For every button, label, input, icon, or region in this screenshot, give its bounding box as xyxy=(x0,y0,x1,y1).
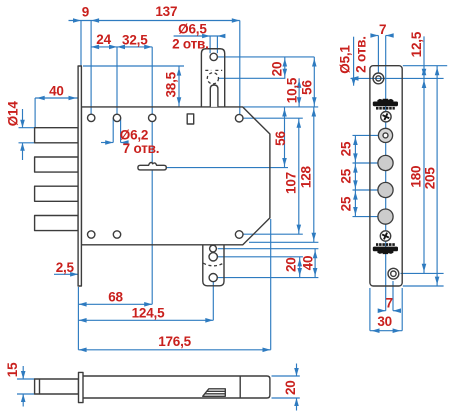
wire ext top chamfer hole right xyxy=(244,117,303,119)
wire ext side body top right xyxy=(272,375,300,377)
wire centerline right view xyxy=(385,36,387,311)
svg-text:20: 20 xyxy=(283,380,298,395)
wire ext hole column 1 xyxy=(90,21,92,118)
side view spring line 2 xyxy=(205,393,226,395)
svg-text:205: 205 xyxy=(422,167,437,190)
bottom tab xyxy=(203,245,224,286)
wire ext hole column 2 xyxy=(116,47,118,118)
hole bottom chamfer xyxy=(235,231,243,239)
svg-text:7: 7 xyxy=(386,296,393,311)
top screw hole outer xyxy=(373,73,384,84)
svg-text:40: 40 xyxy=(300,256,315,271)
strike strip outline xyxy=(370,66,402,286)
wire dim line 124,5 xyxy=(78,319,213,321)
svg-text:20: 20 xyxy=(270,62,285,77)
svg-text:56: 56 xyxy=(300,80,315,95)
wire leader 2,5 xyxy=(54,273,78,275)
wire dim 20 side lower xyxy=(296,398,298,411)
wire tick bolt bottom xyxy=(19,142,36,144)
wire dim 56 vertical top xyxy=(313,57,315,107)
side view spring detail xyxy=(203,389,226,397)
bottom tab dashed circle xyxy=(209,253,217,261)
svg-text:56: 56 xyxy=(273,131,288,146)
svg-text:24: 24 xyxy=(96,32,111,47)
wire ext dashed circle center right xyxy=(219,77,286,79)
keyway slot xyxy=(138,163,166,170)
svg-text:30: 30 xyxy=(377,314,392,329)
hole row2 c2 xyxy=(113,231,120,238)
gray circle 2 xyxy=(378,182,393,197)
wire dim line 40 bolt xyxy=(35,97,78,99)
hole row1 c1 xyxy=(88,114,95,121)
top tab xyxy=(201,49,224,107)
wire dim 40 vertical bottom right xyxy=(314,249,316,278)
svg-text:68: 68 xyxy=(108,290,123,305)
faceplate edge view xyxy=(78,66,81,286)
wire ext top screw hole horizontal xyxy=(351,77,444,79)
wire dim 15 upper xyxy=(22,366,24,379)
svg-text:15: 15 xyxy=(5,362,20,377)
wire dim line 24/32,5 xyxy=(91,46,152,48)
wire dim 12,5/180 vertical xyxy=(423,36,425,273)
wire ext hole2 right tangent xyxy=(120,118,122,143)
wire dim line 176,5 xyxy=(78,349,270,351)
svg-text:Ø14: Ø14 xyxy=(6,101,21,127)
logo ZAMKOF bottom flipped xyxy=(373,243,398,254)
phillips screw top xyxy=(381,112,391,122)
svg-text:107: 107 xyxy=(284,172,299,194)
wire ext strip right down xyxy=(401,288,403,331)
svg-text:2,5: 2,5 xyxy=(56,260,75,275)
wire dim 7 top left seg xyxy=(371,35,379,37)
wire ext strip top right xyxy=(403,65,447,67)
side view body xyxy=(83,376,270,398)
side view divider xyxy=(239,376,241,398)
wire ext gray circle 2 left xyxy=(353,189,379,191)
svg-text:12,5: 12,5 xyxy=(409,31,424,57)
wire dim 20 vertical right top xyxy=(284,57,286,78)
wire ext strip left down xyxy=(369,288,371,331)
wire ext tab hole center right xyxy=(217,56,314,58)
svg-text:Ø6,5: Ø6,5 xyxy=(178,22,207,37)
bottom tab hole xyxy=(209,274,217,282)
wire dim 7 bottom right seg xyxy=(393,310,401,312)
svg-text:25: 25 xyxy=(338,168,353,183)
wire ext body top edge right xyxy=(244,106,319,108)
wire leader 2 otv right view xyxy=(353,37,355,86)
wire ext chamfer hole column xyxy=(239,21,241,119)
wire ext faceplate left to top dim xyxy=(80,21,82,67)
wire dim 25 chain vertical xyxy=(354,135,356,216)
top tab hole xyxy=(210,53,217,60)
wire ext keyway center right xyxy=(167,167,289,169)
wire dim 20 side upper xyxy=(296,364,298,377)
side view faceplate xyxy=(79,372,84,402)
wire ext bottom chamfer hole right xyxy=(244,233,303,235)
wire dim line Ø6,5 xyxy=(174,35,225,37)
svg-text:Ø5,1: Ø5,1 xyxy=(338,45,353,74)
wire dim 20 vertical bottom right xyxy=(299,257,301,278)
wire dim Ø6,2 leader left xyxy=(101,142,113,144)
wire dim 107 vertical xyxy=(298,118,300,234)
svg-text:128: 128 xyxy=(298,165,313,188)
wire dim 10,5 vertical xyxy=(298,78,300,107)
wire ext faceplate left down xyxy=(77,287,79,350)
wire ext body right edge down xyxy=(270,219,272,350)
bolt 1 xyxy=(35,128,79,143)
svg-text:40: 40 xyxy=(49,84,64,99)
gray circle 1 xyxy=(378,155,393,170)
wire dim line 30 xyxy=(370,330,402,332)
wire ext body bottom edge right xyxy=(249,241,318,243)
wire tick bolt top xyxy=(19,127,36,129)
bottom tab dashed arc xyxy=(203,263,223,266)
top tab slot xyxy=(210,85,218,107)
wire dim 56 vertical mid xyxy=(284,107,286,168)
svg-text:10,5: 10,5 xyxy=(285,77,300,103)
wire dim 128 vertical xyxy=(313,107,315,242)
wire ext top screw hole up xyxy=(377,36,379,74)
svg-text:176,5: 176,5 xyxy=(158,334,191,349)
svg-text:9: 9 xyxy=(82,4,89,19)
side view bolt xyxy=(35,379,79,394)
bolt 3 xyxy=(35,186,79,201)
arrowheads xyxy=(73,18,81,23)
wire dim 7 bottom left seg xyxy=(378,310,386,312)
wire dim 205 vertical xyxy=(436,66,438,286)
wire ext bottom tab hole right xyxy=(218,277,319,279)
wire ext bottom screw hole down xyxy=(392,281,394,311)
wire ext faceplate top right xyxy=(83,65,184,67)
svg-text:2 отв.: 2 отв. xyxy=(353,36,368,73)
wire ext ring hole left xyxy=(353,134,379,136)
wire dim Ø14 upper xyxy=(22,109,24,128)
wire dim 15 lower xyxy=(22,394,24,407)
bolt 4 xyxy=(35,216,79,231)
svg-text:180: 180 xyxy=(409,166,424,188)
svg-text:2 отв.: 2 отв. xyxy=(172,36,209,51)
svg-text:7: 7 xyxy=(379,22,386,37)
ring hole xyxy=(378,128,392,142)
wire ext hole2 left tangent xyxy=(112,118,114,143)
svg-text:25: 25 xyxy=(338,196,353,211)
bolt 2 xyxy=(35,157,79,172)
top tab dashed circle xyxy=(207,73,218,84)
top tab dashed wing left xyxy=(205,69,211,71)
wire tick side bolt bottom xyxy=(17,393,35,395)
wire ext side body bottom right xyxy=(272,397,300,399)
top tab dashed wing right xyxy=(215,69,222,71)
hole row1 c2 xyxy=(113,114,120,121)
wire dim line 9/137 top xyxy=(69,20,240,22)
wire dim 38,5 vertical xyxy=(178,66,180,107)
side view bolt collar xyxy=(39,379,41,394)
wire dim Ø14 lower xyxy=(22,143,24,160)
bottom screw hole outer xyxy=(388,268,399,279)
gray circle 3 xyxy=(378,209,393,224)
wire ext bottom tab dashed circle right xyxy=(218,248,319,250)
wire ext tab hole left edge xyxy=(209,36,211,53)
wire tick side bolt top xyxy=(17,378,35,380)
logo ZAMKOF top xyxy=(373,99,398,110)
svg-text:7 отв.: 7 отв. xyxy=(123,141,160,156)
lock body xyxy=(81,107,270,245)
wire ext strip bottom right xyxy=(403,285,444,287)
svg-text:20: 20 xyxy=(284,257,299,272)
wire ext bolt tip xyxy=(34,98,36,128)
svg-text:38,5: 38,5 xyxy=(163,71,178,97)
top screw hole inner xyxy=(376,76,381,81)
svg-text:32,5: 32,5 xyxy=(122,32,148,47)
phillips screw bottom xyxy=(380,231,390,241)
wire ext hole column 3 / keyway column xyxy=(151,47,153,304)
bottom tab top circle xyxy=(210,245,217,252)
hole row1 c3 xyxy=(149,114,156,121)
wire ext tab hole right edge xyxy=(216,36,218,53)
wire ext gray circle 3 left xyxy=(353,216,379,218)
small rectangular hole xyxy=(187,114,194,124)
hole top chamfer xyxy=(235,114,243,122)
side view spring line 1 xyxy=(207,390,226,392)
svg-text:124,5: 124,5 xyxy=(132,305,165,320)
wire dim 7 top right seg xyxy=(386,35,394,37)
hole row2 c1 xyxy=(88,231,95,238)
bottom screw hole inner xyxy=(391,271,396,276)
wire dim Ø6,2 leader right xyxy=(121,142,129,144)
svg-text:25: 25 xyxy=(338,141,353,156)
wire ext bottom tab hole down xyxy=(212,282,214,321)
wire dim line 68 xyxy=(78,303,152,305)
wire ext bottom screw hole right xyxy=(401,272,444,274)
svg-text:137: 137 xyxy=(155,4,177,19)
wire ext gray circle 1 left xyxy=(353,162,379,164)
